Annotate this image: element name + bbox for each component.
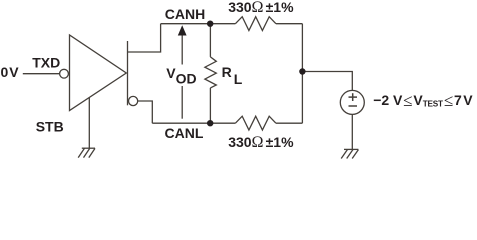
wire CANH stub from driver output [128, 24, 161, 52]
svg-text:−2 V≤VTEST≤7V: −2 V≤VTEST≤7V [373, 91, 473, 110]
wire voltage source to ground [351, 114, 353, 149]
svg-text:TXD: TXD [32, 54, 60, 70]
wire right vertical bus [301, 24, 303, 124]
wire CANL rail left segment [152, 122, 235, 124]
junction right bus to VTEST dot [299, 68, 305, 74]
wire TXD input from 0 V source [23, 73, 60, 75]
wire STB pin to ground [88, 98, 90, 149]
svg-text:CANH: CANH [165, 6, 205, 22]
junction CANH node dot [207, 21, 213, 27]
arrow VOD shaft [181, 33, 183, 119]
arrow VOD head [178, 25, 187, 35]
junction CANL node dot [207, 120, 213, 126]
svg-text:CANL: CANL [165, 125, 204, 141]
wire CANL rail right segment [276, 122, 303, 124]
voltage source plus sign [349, 93, 358, 101]
svg-text:STB: STB [36, 119, 64, 135]
wire CANL stub from bubble [138, 101, 153, 123]
driver output bar [127, 41, 129, 105]
resistor RL vertical with leads [205, 24, 216, 124]
svg-text:330Ω±1%: 330Ω±1% [228, 134, 294, 151]
voltage source VTEST circle [340, 90, 364, 114]
inversion bubble on CANL output [129, 96, 138, 105]
svg-text:330Ω±1%: 330Ω±1% [228, 0, 294, 16]
resistor R 330 ohm top [235, 17, 276, 31]
op-amp U1 CAN driver triangle [70, 35, 127, 111]
resistor R 330 ohm bottom [235, 116, 276, 130]
svg-text:RL: RL [222, 64, 243, 87]
ground (below voltage source) [341, 149, 358, 158]
ground (below driver) [78, 148, 95, 157]
input bubble on TXD pin of driver [60, 69, 69, 78]
white mask behind VOD label [163, 65, 203, 87]
svg-text:0V: 0V [1, 64, 20, 80]
wire CANH rail left segment [161, 23, 236, 25]
voltage source minus sign [349, 105, 358, 107]
wire CANH rail right segment [276, 23, 303, 25]
wire from bus junction to voltage source [302, 72, 352, 91]
